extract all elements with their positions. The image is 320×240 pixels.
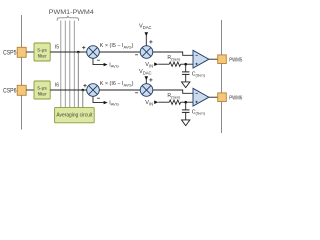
arrow IAVG top [104,63,108,66]
pad CSP6 [17,85,26,95]
wire left rail CSP [21,15,23,130]
wire IAVG input to summer X3 [93,96,104,102]
svg-text:VDAC: VDAC [139,69,152,75]
svg-text:K × (I6 − IAVG): K × (I6 − IAVG) [100,81,134,87]
svg-text:CSP6: CSP6 [3,88,17,94]
resistor R(Sen) bottom [169,100,180,104]
wire summer X2 to op-amp minus input [153,52,193,55]
node junction I5 tap [77,51,80,54]
wire resistor to op-amp plus input [181,63,193,65]
wire capacitor to ground bottom [185,112,187,120]
summer X1 plus sign [82,46,85,49]
summer X4 minus sign [135,92,138,94]
ground top [182,82,190,88]
svg-text:PWM1-PWM4: PWM1-PWM4 [49,9,94,16]
filter U3 5-us filter [34,81,50,99]
capacitor C(Sen) top [182,72,190,75]
wire junction to capacitor bottom [185,102,187,110]
wire op-amp to PWM5 pad [209,58,218,60]
wire PWM4 bus line [73,21,75,108]
summer X1 minus sign [97,59,100,61]
wire VDAC to summer X2 [145,35,147,46]
svg-text:filter: filter [38,91,47,97]
arrow VIN bottom [154,100,158,104]
wire junction to capacitor top [185,64,187,72]
summer X2 minus sign [135,54,138,56]
wire I5 tap to averaging circuit [77,52,79,108]
summer X3 (I6 - IAVG) [87,84,100,97]
wire resistor to op-amp plus input [181,101,193,103]
svg-text:I6: I6 [55,82,59,88]
svg-text:VDAC: VDAC [139,24,152,30]
wire right rail PWM [221,20,223,133]
op-amp U4 bottom [193,88,209,106]
wire VDAC to summer X4 [145,79,147,84]
pad CSP5 [17,47,26,57]
summer X3 plus sign [83,84,86,87]
wire CSP5 to filter [26,51,34,53]
capacitor C(Sen) bottom [182,110,190,113]
brace PWM1-PWM4 bus [57,16,78,21]
summer X2 (VDAC + K(I5-IAVG)) [140,46,153,59]
wire I6 filter to summer [50,89,86,91]
wire I5 filter to summer [50,51,86,53]
op-amp U2 top [193,50,209,68]
svg-text:K × (I5 − IAVG): K × (I5 − IAVG) [100,43,134,49]
resistor R(Sen) top [169,62,180,66]
svg-text:VIN: VIN [145,62,153,68]
wire VIN to resistor [158,63,169,65]
ground bottom [182,120,190,126]
arrow VDAC bottom [145,76,149,80]
wire capacitor to ground top [185,74,187,82]
summer X4 plus sign [149,78,152,81]
svg-text:IAVG: IAVG [109,100,119,106]
summer X3 minus sign [97,97,100,99]
svg-text:5-μs: 5-μs [37,86,47,92]
node junction RC bottom [184,101,187,104]
arrow VIN top [154,62,158,66]
wire IAVG input to summer X1 [93,58,104,64]
svg-text:CSP5: CSP5 [3,50,17,56]
wire PWM2 bus line [64,21,66,108]
arrow VDAC top [145,32,149,36]
wire PWM3 bus line [69,21,71,108]
node junction I6 tap [82,89,85,92]
summer X2 plus sign [149,40,152,43]
wire VIN to resistor [158,101,169,103]
svg-text:IAVG: IAVG [109,62,119,68]
summer X4 (VDAC + K(I6-IAVG)) [140,84,153,97]
summer X1 (I5 - IAVG) [87,46,100,59]
node junction RC top [184,63,187,66]
wire summer X3 to summer X4 [99,89,140,91]
pad PWM5 [218,55,227,64]
pad PWM6 [218,93,227,102]
wire I6 tap to averaging circuit [82,90,84,108]
arrow IAVG bottom [104,101,108,104]
svg-text:PWM5: PWM5 [229,57,242,63]
wire CSP6 to filter [26,89,34,91]
svg-text:5-μs: 5-μs [37,48,47,54]
wire op-amp to PWM6 pad [209,96,218,98]
block averaging circuit [55,108,95,123]
svg-text:Averaging circuit: Averaging circuit [56,113,92,119]
svg-text:PWM6: PWM6 [229,95,242,101]
wire summer X1 to summer X2 [99,51,140,53]
svg-text:I5: I5 [55,44,59,50]
filter U1 5-us filter [34,43,50,61]
svg-text:VIN: VIN [145,100,153,106]
svg-text:filter: filter [38,53,47,59]
wire PWM1 bus line [60,21,62,108]
wire summer X4 to op-amp minus input [153,90,193,93]
